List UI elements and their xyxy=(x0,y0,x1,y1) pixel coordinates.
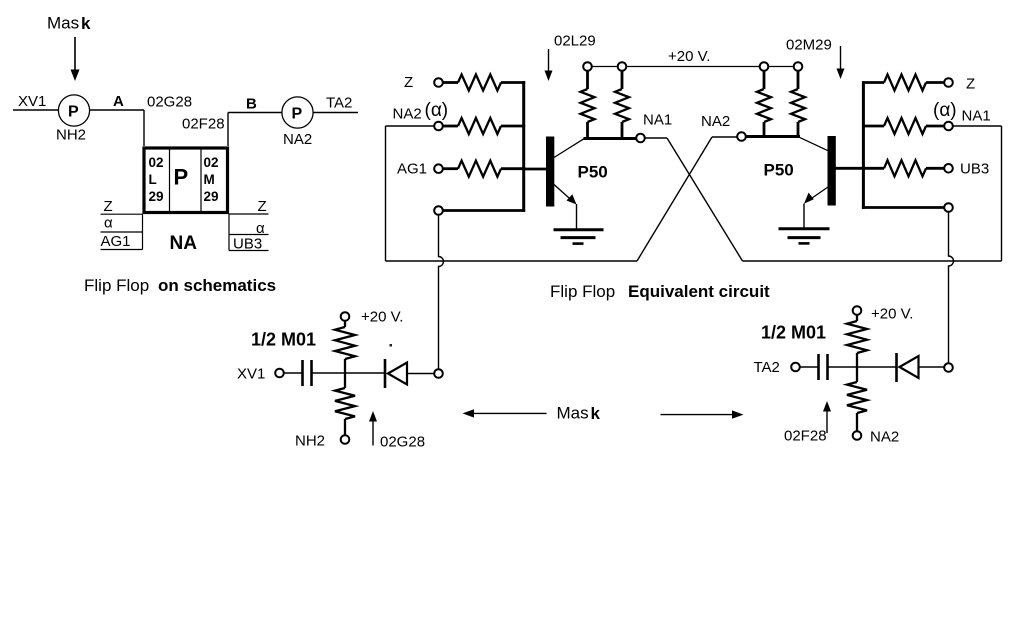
ground G1 xyxy=(554,230,604,244)
svg-text:Z: Z xyxy=(404,74,413,91)
collector rail left (to NA1) xyxy=(584,137,637,140)
terminal output right M01 xyxy=(944,363,953,372)
svg-text:P50: P50 xyxy=(764,161,794,180)
label +20 V. rail xyxy=(668,48,710,65)
pin line alpha right xyxy=(229,234,269,236)
label 02M29 xyxy=(786,37,832,54)
svg-text:(α): (α) xyxy=(933,100,957,121)
label TA2 input xyxy=(754,359,780,376)
capacitor C2 xyxy=(819,354,828,380)
label P50 left xyxy=(578,163,608,182)
resistor R14 (to NA2) xyxy=(847,367,867,432)
svg-text:NA2: NA2 xyxy=(701,113,730,130)
svg-text:TA2: TA2 xyxy=(754,359,780,376)
svg-text:02M29: 02M29 xyxy=(786,37,832,54)
caption Flip Flop on schematics xyxy=(84,276,276,295)
wire collector Q1 diagonal xyxy=(554,139,584,158)
wire XV1 to pulse shaper NH2 xyxy=(13,109,59,111)
wire output right M01 up with hop xyxy=(949,212,954,364)
resistor R12 (to NH2) xyxy=(335,373,355,436)
resistor R3 (AG1 input) xyxy=(443,161,526,177)
pulse shaper P (NA2) xyxy=(282,97,313,128)
label (alpha) NA1 right xyxy=(933,100,991,125)
svg-text:NA2: NA2 xyxy=(393,106,422,123)
resistor R1 (Z input) xyxy=(443,75,526,91)
svg-text:02G28: 02G28 xyxy=(147,94,192,111)
load resistor R6 (02M29 left) xyxy=(757,70,771,137)
terminal Z right xyxy=(944,78,953,87)
load resistor R4 (02L29 left) xyxy=(581,70,595,139)
label Mask middle xyxy=(557,404,601,424)
svg-text:+20 V.: +20 V. xyxy=(871,306,913,323)
bus vertical right input xyxy=(862,81,865,209)
transistor Q2 base bar xyxy=(828,136,836,206)
resistor R10 (UB3 right) xyxy=(863,160,944,176)
wire C1 to junction to D1 xyxy=(312,372,385,374)
label NH2 xyxy=(56,127,86,144)
svg-text:UB3: UB3 xyxy=(233,236,262,253)
svg-text:+20 V.: +20 V. xyxy=(668,48,710,65)
label 02G28 xyxy=(147,94,192,111)
label NH2 bottom xyxy=(295,433,325,450)
wire bottom row right xyxy=(862,206,945,209)
svg-text:02G28: 02G28 xyxy=(380,434,425,451)
svg-text:P: P xyxy=(68,104,79,121)
label alpha (right pin) xyxy=(256,220,265,237)
label NA2 bottom right xyxy=(870,429,899,446)
capacitor C1 xyxy=(303,360,312,386)
svg-text:NA1: NA1 xyxy=(962,108,991,125)
diode D1 xyxy=(385,359,435,388)
pin stub vertical left xyxy=(142,214,144,249)
wire output left M01 up with hop xyxy=(439,215,444,370)
resistor R2 (NA2 input) xyxy=(443,118,526,134)
wire to TA2 xyxy=(313,112,358,114)
label UB3 right xyxy=(960,161,989,178)
pin line AG1 left xyxy=(101,249,143,251)
svg-text:02F28: 02F28 xyxy=(182,116,225,133)
svg-text:XV1: XV1 xyxy=(18,93,46,110)
svg-text:k: k xyxy=(81,14,91,33)
terminal +20V left M01 xyxy=(341,312,350,321)
svg-text:(α): (α) xyxy=(425,100,449,121)
svg-text:Mas: Mas xyxy=(557,404,589,423)
label alpha (left pin) xyxy=(104,215,113,232)
svg-text:NA2: NA2 xyxy=(870,429,899,446)
terminal UB3 right xyxy=(944,164,953,173)
svg-text:NH2: NH2 xyxy=(295,433,325,450)
pin line alpha left xyxy=(101,231,143,233)
svg-text:02F28: 02F28 xyxy=(784,428,827,445)
label Z (left pin) xyxy=(104,198,113,215)
pulse shaper P (NH2) xyxy=(58,95,89,126)
terminal NA2 left xyxy=(434,122,443,131)
pin line Z left xyxy=(101,213,143,215)
pin stub vertical right xyxy=(228,214,230,251)
terminal +20V rail d xyxy=(794,62,803,71)
cell label P (middle) xyxy=(174,165,189,190)
svg-text:TA2: TA2 xyxy=(326,95,352,112)
label 02F28 bottom xyxy=(784,428,827,445)
label Z (right pin) xyxy=(258,198,267,215)
wire C2 to junction to D2 xyxy=(828,366,897,368)
wire bottom input row left xyxy=(443,209,526,212)
wire emitter Q1 to ground xyxy=(576,204,578,229)
svg-text:NA2: NA2 xyxy=(283,131,312,148)
wire base Q2 xyxy=(836,167,865,170)
wire node B (NA block to NA2) xyxy=(228,113,282,147)
svg-text:Z: Z xyxy=(258,198,267,215)
label +20 V. left M01 xyxy=(361,309,403,326)
terminal +20V rail a xyxy=(583,62,592,71)
svg-text:on schematics: on schematics xyxy=(158,276,276,295)
svg-text:Equivalent circuit: Equivalent circuit xyxy=(628,282,770,301)
label B xyxy=(246,96,257,113)
pin line UB3 right xyxy=(229,250,269,252)
label 02L29 xyxy=(554,33,596,50)
svg-text:NA: NA xyxy=(170,233,198,254)
svg-text:NH2: NH2 xyxy=(56,127,86,144)
wire emitter Q2 diagonal xyxy=(804,187,828,204)
terminal bottom right xyxy=(944,203,953,212)
terminal XV1 xyxy=(275,369,284,378)
wire emitter Q1 diagonal xyxy=(554,185,577,205)
svg-text:02: 02 xyxy=(149,155,164,170)
label P50 right xyxy=(764,161,794,180)
+20V rail xyxy=(588,66,799,68)
wire NA2 cross-coupling xyxy=(386,126,738,261)
flip-flop block NA box xyxy=(144,148,228,213)
svg-text:AG1: AG1 xyxy=(101,233,131,250)
label AG1 (left pin) xyxy=(101,233,131,250)
svg-text:α: α xyxy=(256,220,265,237)
terminal NA2 bottom xyxy=(853,431,862,440)
label XV1 input xyxy=(237,366,265,383)
arrow Mask right xyxy=(661,410,744,418)
label UB3 (right pin) xyxy=(233,236,262,253)
svg-text:02: 02 xyxy=(204,155,219,170)
label 02F28 xyxy=(182,116,225,133)
collector rail right (NA2) xyxy=(746,135,801,138)
label NA xyxy=(170,233,198,254)
terminal +20V rail b xyxy=(618,62,627,71)
pin line Z right xyxy=(229,213,269,215)
label NA2 (under pulse shaper) xyxy=(283,131,312,148)
load resistor R7 (02M29 right) xyxy=(791,70,805,137)
wire XV1 to C1 xyxy=(284,372,303,374)
terminal TA2 xyxy=(791,363,800,372)
transistor Q1 base bar xyxy=(546,137,554,207)
resistor R8 (Z output right) xyxy=(863,75,944,91)
terminal bottom left xyxy=(434,206,443,215)
svg-text:02L29: 02L29 xyxy=(554,33,596,50)
label 1/2 M01 right xyxy=(761,323,826,343)
wire TA2 to C2 xyxy=(800,366,819,368)
svg-text:UB3: UB3 xyxy=(960,161,989,178)
svg-text:L: L xyxy=(149,172,157,187)
svg-text:+20 V.: +20 V. xyxy=(361,309,403,326)
svg-text:Mas: Mas xyxy=(47,14,79,33)
label AG1 input left xyxy=(397,161,427,178)
ground G2 xyxy=(779,229,830,244)
arrow 02F28 up xyxy=(823,401,831,433)
svg-text:P50: P50 xyxy=(578,163,608,182)
arrow Mask down to NH2 xyxy=(71,37,80,81)
label TA2 xyxy=(326,95,352,112)
cell label 02 M 29 (right) xyxy=(204,155,219,204)
terminal NH2 xyxy=(341,435,350,444)
svg-text:XV1: XV1 xyxy=(237,366,265,383)
svg-text:NA1: NA1 xyxy=(643,112,672,129)
label NA1 node xyxy=(643,112,672,129)
wire collector Q2 diagonal xyxy=(798,137,828,151)
svg-text:Flip Flop: Flip Flop xyxy=(84,276,149,295)
svg-text:k: k xyxy=(591,404,601,423)
svg-text:AG1: AG1 xyxy=(397,161,427,178)
label Z input left xyxy=(404,74,413,91)
terminal Z left xyxy=(434,78,443,87)
svg-text:29: 29 xyxy=(149,189,164,204)
terminal +20V right M01 xyxy=(853,306,862,315)
terminal output left M01 xyxy=(434,369,443,378)
wire emitter Q2 to ground xyxy=(803,204,805,229)
svg-text:P: P xyxy=(292,106,303,123)
arrow 02G28 up xyxy=(369,411,377,446)
label A xyxy=(113,93,124,110)
svg-text:Z: Z xyxy=(966,76,975,93)
svg-text:1/2 M01: 1/2 M01 xyxy=(761,323,826,343)
load resistor R5 (02L29 right) xyxy=(615,70,629,139)
resistor R11 (to +20V) xyxy=(335,321,355,374)
svg-text:Flip Flop: Flip Flop xyxy=(550,282,615,301)
wire NA1 cross-coupling xyxy=(645,126,1002,261)
terminal +20V rail c xyxy=(760,62,769,71)
label NA2 node xyxy=(701,113,730,130)
label 1/2 M01 left xyxy=(251,330,316,350)
arrow 02L29 down xyxy=(545,49,553,81)
label 02G28 bottom xyxy=(380,434,425,451)
svg-text:29: 29 xyxy=(204,189,219,204)
bus vertical left input xyxy=(522,81,525,212)
svg-text:α: α xyxy=(104,215,113,232)
caption Flip Flop Equivalent circuit xyxy=(550,282,770,301)
label Z output right xyxy=(966,76,975,93)
svg-text:Z: Z xyxy=(104,198,113,215)
wire node A (NH2 to NA block) xyxy=(90,110,145,146)
node NA1 terminal xyxy=(636,134,645,143)
label +20 V. right M01 xyxy=(871,306,913,323)
cell label 02 L 29 (left) xyxy=(149,155,164,204)
terminal AG1 left xyxy=(434,164,443,173)
svg-text:P: P xyxy=(174,165,189,190)
arrow Mask left xyxy=(463,409,547,417)
resistor R9 (alpha NA1 right) xyxy=(863,118,944,134)
wire base Q1 xyxy=(522,168,546,171)
terminal alpha NA1 right xyxy=(944,122,953,131)
svg-text:1/2 M01: 1/2 M01 xyxy=(251,330,316,350)
node NA2 terminal xyxy=(737,132,746,141)
resistor R13 (to +20V right) xyxy=(847,315,867,368)
svg-text:B: B xyxy=(246,96,257,113)
diode D2 xyxy=(897,353,945,382)
arrow 02M29 down xyxy=(837,46,845,79)
label XV1 xyxy=(18,93,46,110)
label Mask (top input) xyxy=(47,14,91,34)
svg-text:A: A xyxy=(113,93,124,110)
svg-text:M: M xyxy=(204,172,215,187)
stray dot xyxy=(390,344,393,347)
label NA2 (alpha) input left xyxy=(393,100,449,123)
